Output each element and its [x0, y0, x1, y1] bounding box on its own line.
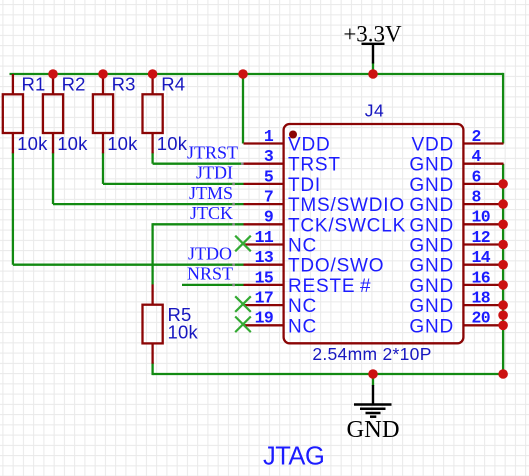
svg-text:JTRST: JTRST	[187, 142, 238, 162]
pin 18	[409, 289, 503, 318]
wire R1 to JTDO net	[12, 153, 14, 265]
svg-text:GND: GND	[409, 256, 454, 277]
pin 17	[244, 289, 318, 318]
anchor tick JTCK	[232, 223, 235, 226]
svg-text:10k: 10k	[168, 322, 199, 343]
wire R4 to JTRST net	[151, 153, 153, 164]
wire right rail down to pin 2	[502, 73, 504, 144]
svg-text:R1: R1	[22, 74, 46, 95]
junction pin 20 / GND rail	[498, 321, 508, 331]
svg-text:2: 2	[472, 127, 481, 146]
pin 15	[244, 268, 372, 297]
svg-text:NC: NC	[288, 296, 317, 317]
svg-text:19: 19	[255, 309, 274, 328]
pin 14	[409, 248, 503, 277]
svg-text:16: 16	[472, 268, 491, 287]
junction +3.3V symbol / rail	[368, 69, 378, 79]
svg-text:R2: R2	[62, 74, 86, 95]
wire R3 to JTDI net	[102, 153, 104, 184]
pin 3	[244, 147, 341, 176]
wire NRST net stub to pin 15	[182, 284, 244, 286]
svg-text:10k: 10k	[57, 133, 88, 154]
svg-text:4: 4	[472, 147, 482, 166]
svg-text:R4: R4	[161, 74, 185, 95]
junction pin 10 / GND rail	[498, 220, 508, 230]
svg-text:TRST: TRST	[288, 155, 341, 176]
junction R2 / +3.3V rail	[48, 69, 58, 79]
svg-text:12: 12	[472, 228, 491, 247]
wire JTCK pin 9 to R5	[153, 223, 244, 225]
svg-text:JTDI: JTDI	[196, 163, 233, 183]
wire R5 bottom to GND rail	[151, 363, 153, 376]
svg-text:8: 8	[472, 188, 482, 207]
pin-1 marker dot	[289, 131, 297, 139]
svg-text:TMS/SWDIO: TMS/SWDIO	[288, 195, 405, 216]
resistor R1	[3, 74, 23, 153]
svg-text:NC: NC	[288, 236, 317, 257]
svg-text:TDI: TDI	[288, 175, 321, 196]
svg-text:10k: 10k	[157, 133, 188, 154]
junction extra GND rail	[498, 310, 508, 320]
junction GND rail corner	[498, 369, 508, 379]
junction pin1 wire / +3.3V rail	[238, 69, 248, 79]
svg-text:3: 3	[264, 147, 274, 166]
svg-text:14: 14	[472, 248, 491, 267]
wire vertical to pin 1	[242, 74, 244, 144]
pin 7	[244, 188, 405, 217]
svg-text:5: 5	[264, 167, 274, 186]
svg-text:JTDO: JTDO	[188, 243, 232, 263]
svg-text:+3.3V: +3.3V	[343, 22, 402, 47]
wire top +3.3V rail	[10, 73, 504, 75]
junction GND symbol / rail	[368, 369, 378, 379]
pin 12	[409, 228, 503, 257]
svg-text:11: 11	[255, 228, 274, 247]
junction pin 6 / GND rail	[498, 179, 508, 189]
pin 13	[244, 248, 385, 277]
svg-text:GND: GND	[409, 316, 454, 337]
ground GND symbol	[346, 385, 399, 443]
svg-text:2.54mm 2*10P: 2.54mm 2*10P	[312, 344, 431, 364]
svg-text:NC: NC	[288, 316, 317, 337]
junction R4 / +3.3V rail	[148, 69, 158, 79]
svg-text:RESTE #: RESTE #	[288, 276, 371, 297]
svg-text:VDD: VDD	[288, 135, 331, 156]
pin 19	[244, 309, 318, 338]
pin 2	[411, 127, 503, 156]
svg-text:J4: J4	[365, 101, 384, 121]
svg-text:TDO/SWO: TDO/SWO	[288, 256, 384, 277]
pin 4	[409, 147, 503, 176]
svg-text:GND: GND	[409, 155, 454, 176]
svg-text:R3: R3	[112, 74, 136, 95]
anchor tick JTMS	[232, 203, 235, 206]
resistor R3	[93, 74, 113, 153]
no-connect X pin 11	[235, 236, 251, 252]
svg-text:15: 15	[255, 268, 274, 287]
svg-text:GND: GND	[409, 276, 454, 297]
svg-text:13: 13	[255, 248, 274, 267]
anchor tick JTDI	[232, 183, 235, 186]
no-connect X pin 17	[235, 296, 251, 312]
junction pin 14 / GND rail	[498, 260, 508, 270]
pin 8	[409, 188, 503, 217]
junction pin 12 / GND rail	[498, 240, 508, 250]
svg-text:JTCK: JTCK	[190, 203, 233, 223]
svg-text:9: 9	[264, 208, 273, 227]
anchor tick JTRST	[241, 162, 244, 165]
svg-text:JTMS: JTMS	[189, 183, 233, 203]
svg-text:1: 1	[264, 127, 274, 146]
svg-text:17: 17	[255, 289, 274, 308]
connector J4 body	[284, 124, 464, 343]
junction pin 16 / GND rail	[498, 280, 508, 290]
svg-text:GND: GND	[409, 175, 454, 196]
pin 16	[409, 268, 503, 297]
pin 1	[244, 127, 331, 156]
resistor R2	[43, 74, 63, 153]
pin 9	[244, 208, 407, 237]
svg-text:7: 7	[264, 188, 273, 207]
svg-text:VDD: VDD	[411, 135, 454, 156]
pin 20	[409, 309, 503, 338]
anchor tick NRST	[232, 284, 235, 287]
junction pin 8 / GND rail	[498, 199, 508, 209]
junction pin 18 / GND rail	[498, 300, 508, 310]
svg-text:TCK/SWCLK: TCK/SWCLK	[288, 215, 406, 236]
pin 6	[409, 167, 503, 196]
svg-text:GND: GND	[409, 296, 454, 317]
resistor R5	[143, 284, 163, 363]
no-connect X pin 19	[235, 317, 251, 333]
svg-text:20: 20	[472, 309, 491, 328]
svg-text:GND: GND	[346, 416, 399, 443]
wire stub +3.3V symbol	[372, 63, 374, 75]
svg-text:GND: GND	[409, 215, 454, 236]
svg-text:GND: GND	[409, 195, 454, 216]
wire right GND rail pin4 down	[502, 164, 504, 374]
svg-text:GND: GND	[409, 236, 454, 257]
wire stub GND symbol	[372, 374, 374, 386]
resistor R4	[143, 74, 163, 153]
svg-text:10k: 10k	[107, 133, 138, 154]
svg-text:18: 18	[472, 289, 491, 308]
power +3.3V symbol	[343, 22, 402, 64]
junction R3 / +3.3V rail	[98, 69, 108, 79]
svg-text:NRST: NRST	[187, 264, 233, 284]
pin 10	[409, 208, 503, 237]
pin 11	[244, 228, 318, 257]
svg-text:6: 6	[472, 167, 481, 186]
svg-text:10k: 10k	[17, 133, 48, 154]
pin 5	[244, 167, 322, 196]
svg-text:10: 10	[472, 208, 491, 227]
svg-text:JTAG: JTAG	[263, 443, 324, 471]
wire R2 to JTMS net	[52, 153, 54, 205]
wire bottom GND rail	[153, 373, 504, 375]
anchor tick JTDO	[232, 263, 235, 266]
